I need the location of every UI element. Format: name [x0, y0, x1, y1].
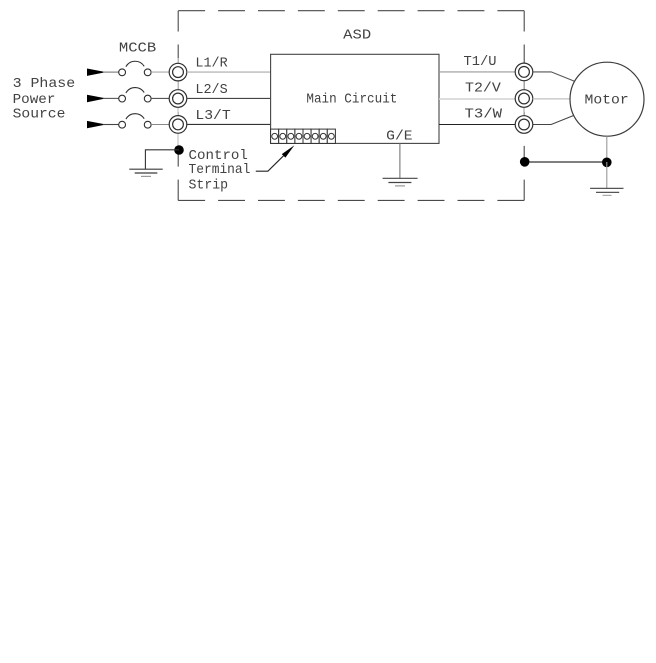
- svg-text:ASD: ASD: [343, 27, 371, 43]
- ASD enclosure dashed box right edge: [523, 11, 525, 201]
- MCCB pole 3 left contact: [119, 121, 126, 128]
- leader arrowhead: [282, 145, 295, 157]
- MCCB pole 1 right contact: [144, 69, 151, 76]
- control terminal strip screws: [272, 133, 335, 139]
- wire main circuit to T1/U: [439, 71, 515, 73]
- svg-text:L2/S: L2/S: [195, 82, 227, 98]
- svg-text:T1/U: T1/U: [464, 54, 497, 70]
- MCCB pole 2 right contact: [144, 95, 151, 102]
- wire switch2 to terminal L2/S: [151, 97, 169, 99]
- wire G/E to ground: [399, 143, 401, 178]
- wire T2/V to motor: [533, 98, 570, 100]
- wire bus to motor ground: [606, 162, 608, 188]
- terminal L2/S: [169, 90, 187, 108]
- wire main circuit to T3/W: [439, 124, 515, 126]
- junction dot motor side: [602, 158, 612, 168]
- terminal L1/R: [169, 63, 187, 81]
- wire L1/R to main circuit: [187, 71, 271, 73]
- wire motor to ground bus: [606, 136, 608, 162]
- G/E ground symbol: [383, 178, 418, 186]
- wire arrow2 to switch2: [103, 97, 119, 99]
- left vertical bus connecting input terminals: [177, 58, 179, 150]
- MCCB pole 1 left contact: [119, 69, 126, 76]
- svg-text:Strip: Strip: [189, 178, 229, 194]
- phase 1 feed arrow: [87, 69, 106, 76]
- svg-text:Main Circuit: Main Circuit: [306, 92, 397, 108]
- junction dot input ground: [174, 145, 184, 155]
- wire dot to input ground: [145, 150, 179, 169]
- motor M1: [570, 62, 644, 136]
- phase 2 feed arrow: [87, 95, 106, 102]
- svg-text:Power: Power: [13, 92, 56, 108]
- control terminal strip cells: [271, 129, 336, 143]
- wire arrow3 to switch3: [103, 124, 119, 126]
- wire arrow1 to switch1: [103, 71, 119, 73]
- svg-text:T2/V: T2/V: [465, 80, 501, 96]
- ASD enclosure dashed box left edge: [177, 11, 179, 201]
- wire T1/U to motor: [533, 72, 575, 81]
- wire switch3 to terminal L3/T: [151, 124, 169, 126]
- svg-text:L3/T: L3/T: [195, 108, 230, 124]
- input ground symbol: [129, 169, 162, 176]
- MCCB pole 3 right contact: [144, 121, 151, 128]
- junction dot ASD side: [520, 157, 530, 167]
- wire main circuit to T2/V: [439, 98, 515, 100]
- ASD enclosure dashed box top edge: [178, 10, 524, 12]
- ASD enclosure dashed box bottom edge: [178, 199, 524, 201]
- terminal L3/T: [169, 116, 187, 134]
- main circuit box: [271, 54, 439, 143]
- svg-text:L1/R: L1/R: [195, 56, 228, 72]
- terminal T2/V: [515, 90, 533, 108]
- MCCB pole 3 blade arc: [126, 114, 144, 119]
- motor ground symbol: [590, 188, 623, 195]
- ground bus wire: [525, 161, 607, 163]
- svg-text:3 Phase: 3 Phase: [13, 76, 76, 92]
- MCCB pole 2 left contact: [119, 95, 126, 102]
- right vertical bus connecting output terminals: [523, 63, 525, 134]
- phase 3 feed arrow: [87, 121, 106, 128]
- wire L3/T to main circuit: [187, 123, 271, 125]
- wire T3/W to motor: [533, 115, 575, 124]
- MCCB pole 2 blade arc: [126, 88, 144, 93]
- wire switch1 to terminal L1/R: [151, 71, 169, 73]
- terminal T1/U: [515, 63, 533, 81]
- MCCB pole 1 blade arc: [126, 61, 144, 66]
- svg-text:G/E: G/E: [386, 129, 412, 145]
- leader line control terminal strip: [256, 156, 284, 171]
- svg-text:Terminal: Terminal: [189, 162, 251, 178]
- svg-text:MCCB: MCCB: [119, 40, 156, 56]
- terminal T3/W: [515, 116, 533, 134]
- svg-text:Source: Source: [13, 107, 66, 123]
- svg-text:Motor: Motor: [585, 92, 629, 108]
- wire L2/S to main circuit: [187, 97, 271, 99]
- svg-text:T3/W: T3/W: [465, 107, 503, 123]
